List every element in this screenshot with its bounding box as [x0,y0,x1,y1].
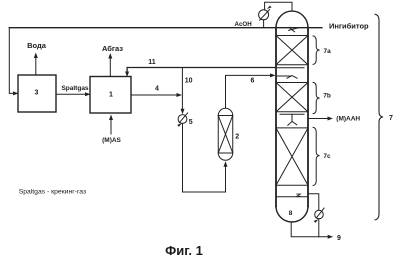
svg-text:AcOH: AcOH [235,21,253,28]
svg-text:1: 1 [109,92,113,99]
svg-text:Абгаз: Абгаз [102,44,123,53]
svg-text:5: 5 [189,119,193,126]
svg-text:10: 10 [185,78,193,85]
svg-text:11: 11 [148,59,156,66]
svg-text:7a: 7a [324,48,332,55]
svg-text:7c: 7c [323,153,331,160]
svg-text:7b: 7b [323,92,331,99]
svg-text:Фиг. 1: Фиг. 1 [165,243,203,258]
svg-text:7: 7 [389,115,393,122]
svg-text:6: 6 [251,77,255,84]
svg-text:Ингибитор: Ингибитор [329,22,369,31]
svg-text:Spaltgas: Spaltgas [61,85,88,92]
svg-text:(M)AS: (M)AS [102,137,121,144]
svg-text:9: 9 [337,235,341,242]
svg-text:(М)ААН: (М)ААН [336,116,360,123]
svg-text:2: 2 [235,133,239,140]
svg-text:Вода: Вода [27,41,47,50]
svg-text:8: 8 [289,210,293,217]
svg-text:4: 4 [155,86,159,93]
svg-text:Spaltgas - крекинг-газ: Spaltgas - крекинг-газ [19,189,86,196]
svg-text:3: 3 [35,90,39,97]
